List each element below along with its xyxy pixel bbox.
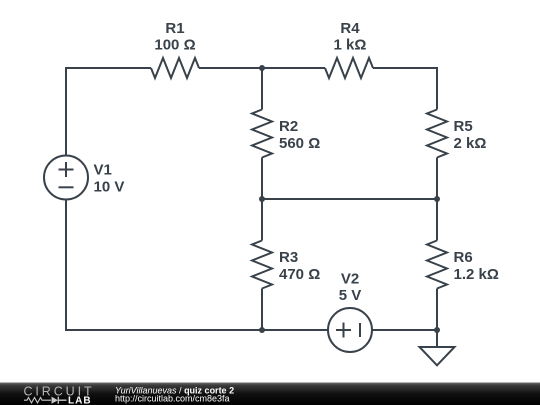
wire R3 bottom lead [261, 289, 263, 331]
svg-text:R4: R4 [340, 20, 360, 37]
svg-text:1 kΩ: 1 kΩ [334, 37, 367, 54]
wire ground stem [436, 330, 438, 347]
junction node at ground [434, 327, 440, 333]
resistor R4 [325, 58, 373, 78]
logo resistor zigzag [24, 398, 51, 403]
resistor R2 [252, 110, 272, 158]
wire R2 bottom lead [261, 158, 263, 200]
svg-text:R5: R5 [454, 118, 473, 135]
wire V2 right to ground node [372, 329, 437, 331]
svg-text:R1: R1 [165, 20, 184, 37]
V2 minus sign [359, 323, 361, 337]
resistor R6 [427, 241, 447, 289]
svg-text:R6: R6 [454, 249, 473, 266]
wire R6 top lead [436, 199, 438, 241]
svg-text:http://circuitlab.com/cm8e3fa: http://circuitlab.com/cm8e3fa [115, 394, 230, 404]
svg-text:5 V: 5 V [339, 287, 362, 304]
wire R3 top lead [261, 199, 263, 241]
voltage source V1 circle [44, 156, 88, 200]
svg-text:R3: R3 [279, 249, 298, 266]
junction node at R3 bottom [259, 327, 265, 333]
junction node at R5/R6 middle rail right [434, 196, 440, 202]
wire R1 right to R4 left [199, 67, 325, 69]
svg-text:LAB: LAB [68, 395, 92, 405]
svg-text:2 kΩ: 2 kΩ [454, 135, 487, 152]
V1 plus sign [59, 162, 74, 177]
voltage source V2 circle [328, 308, 372, 352]
svg-text:470 Ω: 470 Ω [279, 266, 320, 283]
footer bar [0, 383, 540, 405]
resistor R1 [151, 58, 199, 78]
svg-text:V2: V2 [341, 271, 359, 288]
svg-text:R2: R2 [279, 118, 298, 135]
logo diode symbol [52, 397, 59, 404]
V1 minus sign [59, 186, 74, 188]
ground symbol [420, 347, 455, 365]
resistor R3 [252, 241, 272, 289]
wire top-left corner: V1 top to R1 left [66, 68, 151, 156]
svg-text:1.2 kΩ: 1.2 kΩ [454, 266, 499, 283]
wire middle rail [262, 198, 437, 200]
wire R5 bottom to middle rail [436, 158, 438, 200]
V2 plus sign [336, 323, 351, 338]
svg-text:10 V: 10 V [94, 179, 125, 196]
junction node at R2 top [259, 65, 265, 71]
resistor R5 [427, 110, 447, 158]
wire R4 right to top-right corner down to R5 [373, 68, 437, 110]
svg-text:V1: V1 [94, 162, 112, 179]
wire R2 top lead [261, 68, 263, 110]
svg-text:560 Ω: 560 Ω [279, 135, 320, 152]
svg-text:100 Ω: 100 Ω [154, 37, 195, 54]
junction node at R2/R3 middle rail left [259, 196, 265, 202]
wire R6 bottom lead [436, 289, 438, 331]
wire V1 bottom to bottom-left corner to V2 left [66, 200, 328, 331]
